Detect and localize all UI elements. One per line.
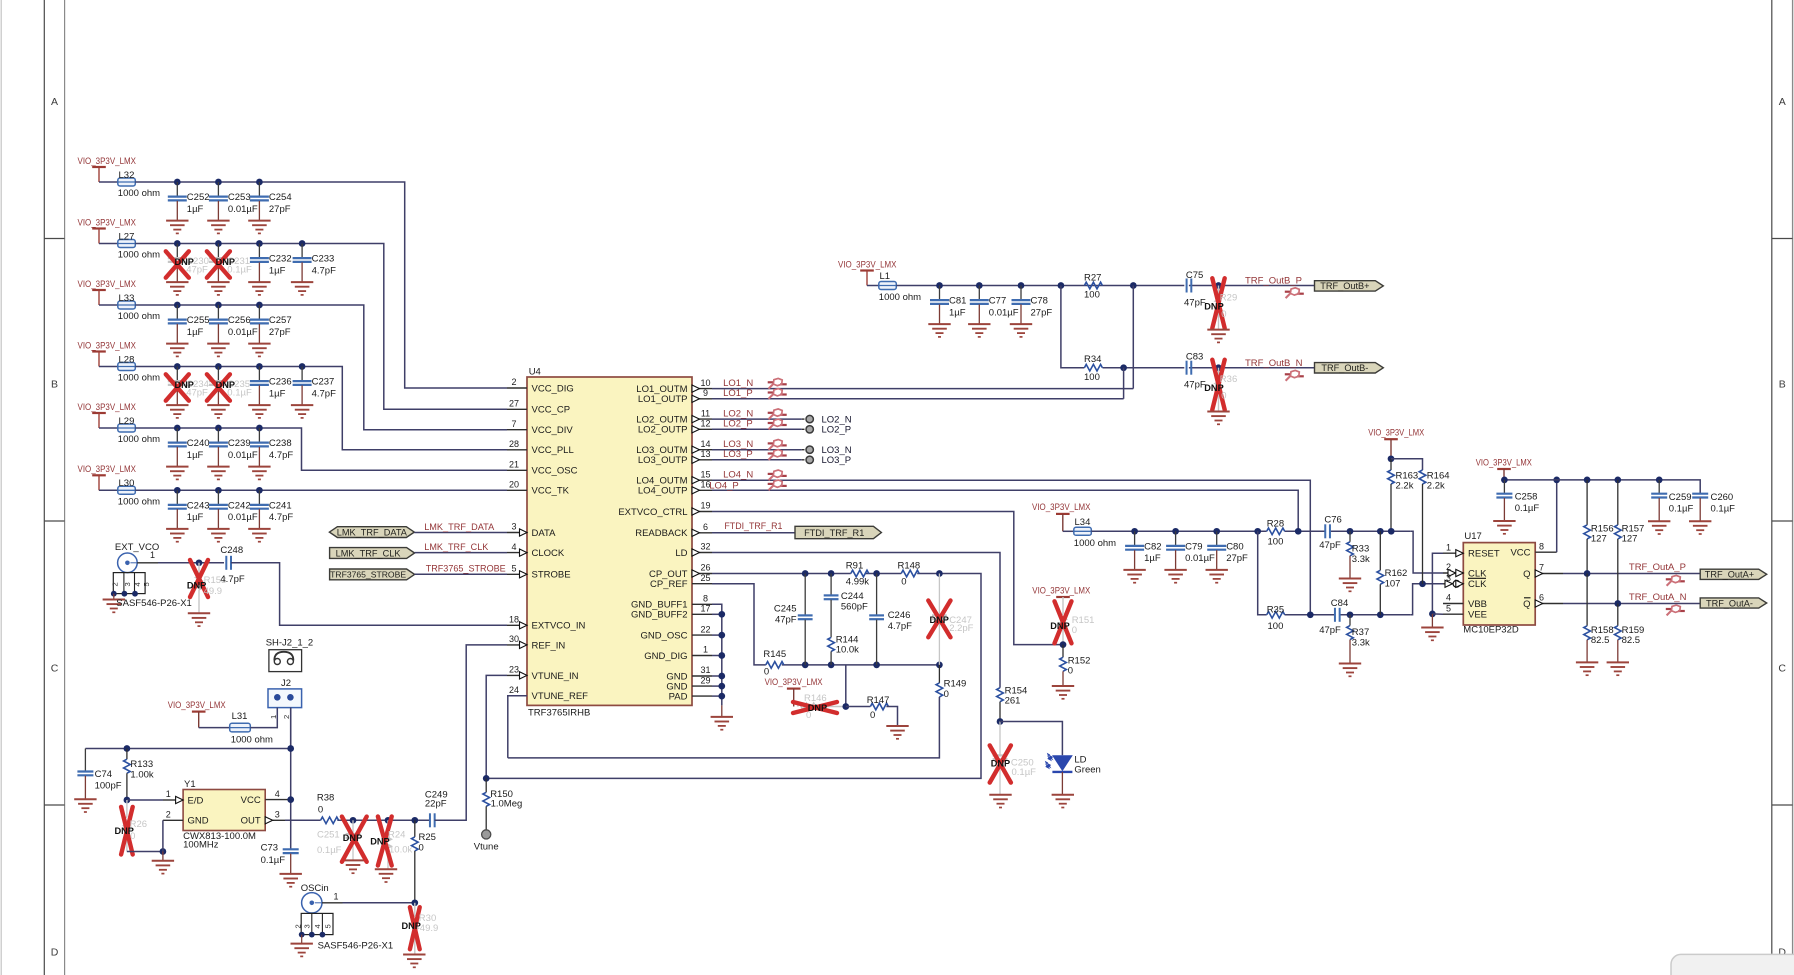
resistor R146 DNP xyxy=(793,693,846,721)
wire OUT row xyxy=(285,819,466,821)
svg-text:10: 10 xyxy=(700,378,710,388)
svg-text:1.0Meg: 1.0Meg xyxy=(491,799,523,810)
wire to REF_IN xyxy=(435,645,507,820)
jumper SH-J2_1_2 xyxy=(266,638,314,672)
capacitor C81 xyxy=(928,282,966,337)
diff pair icon LO3_P xyxy=(768,450,787,460)
resistor R148 xyxy=(898,560,921,587)
svg-text:L31: L31 xyxy=(232,711,248,722)
svg-text:R24: R24 xyxy=(388,830,405,841)
capacitor C82 xyxy=(1123,528,1161,583)
svg-text:2: 2 xyxy=(294,924,303,928)
wire EXTVCO_CTRL xyxy=(712,512,1063,645)
power VIO_3P3V_LMX OutB xyxy=(838,259,897,285)
svg-text:L1: L1 xyxy=(880,271,891,282)
svg-text:DNP: DNP xyxy=(930,615,949,625)
svg-text:C237: C237 xyxy=(312,377,335,388)
svg-text:4: 4 xyxy=(275,789,280,799)
svg-text:TRF_OutA+: TRF_OutA+ xyxy=(1705,570,1754,580)
svg-text:DNP: DNP xyxy=(343,833,362,843)
power VIO_3P3V_LMX for L28 xyxy=(78,340,137,366)
svg-text:0: 0 xyxy=(901,577,906,588)
U17 pin 1 RESET xyxy=(1443,542,1500,559)
IC Y1 CWX813 body xyxy=(183,779,265,851)
capacitor C251 DNP xyxy=(317,817,367,874)
diff pair icon LO4_P xyxy=(768,480,787,490)
connector OSCin xyxy=(291,883,394,957)
power VIO_3P3V_LMX U17 xyxy=(1476,457,1533,480)
svg-text:R27: R27 xyxy=(1084,272,1101,283)
svg-text:LO1_P: LO1_P xyxy=(723,388,753,399)
svg-text:47pF: 47pF xyxy=(775,615,797,626)
svg-text:1µF: 1µF xyxy=(269,388,286,399)
svg-text:VIO_3P3V_LMX: VIO_3P3V_LMX xyxy=(78,279,137,290)
power VIO_3P3V_LMX R146 xyxy=(765,677,824,707)
svg-text:107: 107 xyxy=(1385,579,1401,590)
svg-text:C245: C245 xyxy=(774,604,797,615)
wire L32 rail xyxy=(135,182,507,388)
wire R147 tap xyxy=(842,665,849,710)
svg-text:4.7pF: 4.7pF xyxy=(269,450,293,461)
inductor L31 xyxy=(199,711,273,746)
svg-text:C256: C256 xyxy=(228,315,251,326)
svg-text:C251: C251 xyxy=(317,830,340,841)
power VIO_3P3V_LMX L31 xyxy=(168,700,227,728)
svg-text:1µF: 1µF xyxy=(187,450,204,461)
U4 pin 30 REF_IN xyxy=(507,634,565,651)
U4 pin 4 CLOCK xyxy=(507,542,565,559)
wire R26 to gnd dot xyxy=(127,848,166,855)
svg-text:4: 4 xyxy=(511,542,516,552)
svg-text:47pF: 47pF xyxy=(1319,625,1341,636)
resistor R147 xyxy=(846,695,909,739)
svg-text:DNP: DNP xyxy=(370,837,389,847)
svg-text:C84: C84 xyxy=(1331,598,1348,609)
svg-text:L30: L30 xyxy=(119,478,135,489)
svg-text:100: 100 xyxy=(1268,621,1284,632)
svg-text:4.7pF: 4.7pF xyxy=(888,621,912,632)
svg-text:Green: Green xyxy=(1074,765,1100,776)
svg-text:0.01µF: 0.01µF xyxy=(1185,553,1215,564)
svg-text:EXTVCO_CTRL: EXTVCO_CTRL xyxy=(618,507,687,518)
svg-text:C77: C77 xyxy=(989,296,1006,307)
net label LO4_P xyxy=(709,481,739,492)
svg-text:LO3_P: LO3_P xyxy=(723,449,753,460)
diff pair icon OutB_N xyxy=(1285,370,1304,380)
capacitor C249 xyxy=(425,790,448,828)
net label LO1_P xyxy=(723,388,753,399)
U17 pin 3 CLKbar xyxy=(1443,573,1487,590)
tag TRF_OutA+ xyxy=(1700,569,1767,579)
svg-text:L32: L32 xyxy=(119,170,135,181)
svg-text:0.01µF: 0.01µF xyxy=(989,307,1019,318)
net label TRF_OutA_P xyxy=(1629,562,1686,573)
svg-text:VIO_3P3V_LMX: VIO_3P3V_LMX xyxy=(1032,585,1091,596)
svg-text:C253: C253 xyxy=(228,192,251,203)
svg-text:Y1: Y1 xyxy=(184,779,196,790)
svg-text:DATA: DATA xyxy=(532,528,557,539)
net label LO1_N xyxy=(723,378,753,389)
resistor R164 xyxy=(1391,459,1450,584)
resistor R33 xyxy=(1339,528,1370,591)
wire LO2_P xyxy=(712,428,805,430)
svg-text:TRF_OutB_P: TRF_OutB_P xyxy=(1245,275,1302,286)
inductor L29 xyxy=(99,416,160,445)
svg-text:LD: LD xyxy=(675,548,687,559)
svg-text:C240: C240 xyxy=(187,438,210,449)
svg-text:21: 21 xyxy=(509,460,519,470)
svg-text:27pF: 27pF xyxy=(1031,307,1053,318)
net label TRF3765_STROBE xyxy=(426,564,506,575)
U4 pin 20 VCC_TK xyxy=(507,480,570,497)
capacitor C79 xyxy=(1164,528,1215,583)
U4 pin 2 VCC_DIG xyxy=(507,377,574,394)
svg-text:DNP: DNP xyxy=(808,703,827,713)
diff pair icon LO2_N xyxy=(768,409,787,419)
wire LO1_N xyxy=(712,388,1133,390)
resistor R150 xyxy=(483,778,522,829)
inductor L1 xyxy=(867,271,921,303)
svg-text:VCC_OSC: VCC_OSC xyxy=(532,466,578,477)
wire L29 rail xyxy=(135,428,507,470)
svg-text:C241: C241 xyxy=(269,501,292,512)
svg-text:C259: C259 xyxy=(1669,492,1692,503)
IC U4 TRF3765IRHB body xyxy=(527,367,692,719)
svg-text:VIO_3P3V_LMX: VIO_3P3V_LMX xyxy=(1476,457,1533,468)
svg-text:1µF: 1µF xyxy=(187,204,204,215)
svg-text:VIO_3P3V_LMX: VIO_3P3V_LMX xyxy=(78,402,137,413)
svg-text:0: 0 xyxy=(1068,666,1073,677)
svg-text:VCC_TK: VCC_TK xyxy=(532,486,570,497)
svg-text:B: B xyxy=(1779,379,1786,391)
svg-text:27pF: 27pF xyxy=(269,327,291,338)
svg-text:0.1µF: 0.1µF xyxy=(1711,504,1736,515)
junction LO4_N joins xyxy=(1307,611,1314,618)
svg-text:100: 100 xyxy=(1084,372,1100,383)
Y1 pin 1 E/D xyxy=(166,789,204,806)
svg-text:24: 24 xyxy=(509,685,519,695)
svg-text:C233: C233 xyxy=(312,254,335,265)
svg-text:0.01µF: 0.01µF xyxy=(228,512,258,523)
diff pair icon LO2_P xyxy=(768,419,787,429)
svg-text:VIO_3P3V_LMX: VIO_3P3V_LMX xyxy=(838,259,897,270)
capacitor C247 DNP xyxy=(928,570,973,668)
svg-text:SH-J2_1_2: SH-J2_1_2 xyxy=(266,638,314,649)
power VIO_3P3V_LMX for L29 xyxy=(78,402,137,428)
resistor R27 xyxy=(1084,272,1102,300)
capacitor C244 xyxy=(824,570,868,668)
net label TRF_OutB_P xyxy=(1245,275,1302,286)
Y1 pin 2 GND xyxy=(163,810,209,827)
svg-text:49.9: 49.9 xyxy=(204,586,223,597)
svg-text:LO3_OUTP: LO3_OUTP xyxy=(638,455,688,466)
svg-text:C243: C243 xyxy=(187,501,210,512)
U4 pin 1 GND_DIG xyxy=(644,645,712,662)
resistor R133 xyxy=(124,745,154,803)
svg-text:LMK_TRF_CLK: LMK_TRF_CLK xyxy=(424,542,489,553)
wire to EXTVCO_IN xyxy=(231,563,507,626)
svg-text:3: 3 xyxy=(511,522,516,532)
capacitor C230 DNP xyxy=(166,240,209,295)
svg-text:23: 23 xyxy=(509,665,519,675)
U4 pin 11 LO2_OUTM xyxy=(636,408,712,425)
svg-text:VIO_3P3V_LMX: VIO_3P3V_LMX xyxy=(168,700,227,711)
diff pair icon LO1_N xyxy=(768,378,787,388)
U4 pin 31 GND xyxy=(666,665,712,682)
svg-text:TRF_OutA-: TRF_OutA- xyxy=(1706,598,1753,608)
svg-text:TRF_OutB+: TRF_OutB+ xyxy=(1320,281,1369,291)
svg-text:TRF_OutA_N: TRF_OutA_N xyxy=(1629,592,1687,603)
tag TRF_OutB+ xyxy=(1315,281,1384,292)
svg-text:1000 ohm: 1000 ohm xyxy=(118,250,160,261)
header J2 xyxy=(268,678,302,719)
U4 pin 19 EXTVCO_CTRL xyxy=(618,501,712,518)
viewer UI corner box xyxy=(1671,954,1794,975)
diff pair icon LO4_N xyxy=(768,470,787,480)
capacitor C240 xyxy=(166,425,209,480)
wire OutB_N row xyxy=(1058,282,1315,368)
diff pair icon OutB_P xyxy=(1285,288,1304,298)
terminal LO3_P xyxy=(806,455,851,466)
svg-text:VIO_3P3V_LMX: VIO_3P3V_LMX xyxy=(78,464,137,475)
svg-text:READBACK: READBACK xyxy=(635,528,688,539)
U4 pin 24 VTUNE_REF xyxy=(507,685,588,702)
svg-text:C83: C83 xyxy=(1186,352,1203,363)
capacitor C252 xyxy=(166,179,209,234)
svg-text:R133: R133 xyxy=(130,759,153,770)
svg-text:127: 127 xyxy=(1622,534,1638,545)
capacitor C235 DNP xyxy=(207,363,252,418)
resistor R152 xyxy=(1052,641,1091,699)
wire DATA xyxy=(414,532,507,534)
U4 pin 16 LO4_OUTP xyxy=(638,480,712,497)
svg-text:GND_OSC: GND_OSC xyxy=(641,631,688,642)
svg-text:LMK_TRF_DATA: LMK_TRF_DATA xyxy=(337,527,408,537)
wire LO4_P xyxy=(712,490,1298,531)
svg-text:L33: L33 xyxy=(119,293,135,304)
capacitor C260 xyxy=(1689,492,1735,534)
svg-text:R145: R145 xyxy=(763,649,786,660)
svg-text:L28: L28 xyxy=(119,354,135,365)
svg-text:C236: C236 xyxy=(269,377,292,388)
svg-text:4: 4 xyxy=(133,582,142,586)
svg-text:J2: J2 xyxy=(281,678,291,689)
svg-text:R91: R91 xyxy=(846,560,863,571)
svg-text:5: 5 xyxy=(511,564,516,574)
wire CLKb feed xyxy=(1410,580,1443,614)
svg-text:C260: C260 xyxy=(1711,492,1734,503)
svg-text:11: 11 xyxy=(701,408,710,418)
capacitor C75 xyxy=(1184,270,1206,308)
svg-text:C82: C82 xyxy=(1144,542,1161,553)
wire CP_OUT row xyxy=(486,574,981,779)
svg-text:17: 17 xyxy=(700,604,710,614)
svg-text:R35: R35 xyxy=(1267,605,1284,616)
svg-text:Q: Q xyxy=(1523,569,1530,580)
svg-text:0: 0 xyxy=(318,805,323,816)
svg-text:15: 15 xyxy=(700,469,710,479)
svg-text:VBB: VBB xyxy=(1468,599,1487,610)
svg-text:D: D xyxy=(51,946,59,958)
inductor L30 xyxy=(99,478,160,507)
U4 pin 10 LO1_OUTM xyxy=(636,378,712,395)
svg-text:2.2pF: 2.2pF xyxy=(949,623,973,634)
svg-text:20: 20 xyxy=(509,480,519,490)
svg-text:LO4_OUTP: LO4_OUTP xyxy=(638,486,688,497)
svg-text:TRF_OutB-: TRF_OutB- xyxy=(1321,363,1368,373)
svg-text:FTDI_TRF_R1: FTDI_TRF_R1 xyxy=(724,521,782,532)
svg-text:OUT: OUT xyxy=(241,816,261,827)
power VIO_3P3V_LMX for L33 xyxy=(78,279,137,305)
svg-text:82.5: 82.5 xyxy=(1622,635,1641,646)
junction LO4_P joins xyxy=(1295,528,1302,535)
svg-text:1000 ohm: 1000 ohm xyxy=(118,497,160,508)
svg-text:1µF: 1µF xyxy=(1144,553,1161,564)
svg-text:0.1µF: 0.1µF xyxy=(317,845,342,856)
net label LO3_P xyxy=(723,449,753,460)
capacitor C234 DNP xyxy=(166,363,209,418)
Y1 pin 3 OUT xyxy=(241,810,285,827)
wire CLOCK xyxy=(415,552,507,554)
resistor R156 xyxy=(1584,477,1614,577)
svg-text:R28: R28 xyxy=(1267,519,1284,530)
svg-text:DNP: DNP xyxy=(1204,302,1223,312)
U4 pin 18 EXTVCO_IN xyxy=(507,615,585,632)
svg-text:VCC_DIV: VCC_DIV xyxy=(532,425,574,436)
U4 pin 15 LO4_OUTM xyxy=(636,469,712,486)
capacitor C237 xyxy=(291,363,336,418)
svg-text:L29: L29 xyxy=(119,416,135,427)
svg-text:C80: C80 xyxy=(1226,542,1243,553)
terminal LO2_P xyxy=(806,425,851,436)
svg-text:22pF: 22pF xyxy=(425,799,447,810)
svg-text:L34: L34 xyxy=(1075,517,1091,528)
svg-text:5: 5 xyxy=(1446,603,1451,613)
tag FTDI_TRF_R1 xyxy=(795,526,881,538)
svg-text:VEE: VEE xyxy=(1468,610,1487,621)
svg-text:3: 3 xyxy=(123,582,132,586)
capacitor C83 xyxy=(1184,352,1206,391)
inductor L28 xyxy=(99,354,160,383)
svg-text:2.2k: 2.2k xyxy=(1396,480,1414,491)
svg-text:LO1_OUTP: LO1_OUTP xyxy=(638,394,688,405)
svg-text:2.2k: 2.2k xyxy=(1427,480,1445,491)
svg-text:1: 1 xyxy=(166,789,171,799)
wire LO3_N xyxy=(712,449,805,451)
svg-text:27pF: 27pF xyxy=(269,204,291,215)
svg-text:C244: C244 xyxy=(841,591,864,602)
U17 pin 8 VCC xyxy=(1510,541,1556,558)
svg-text:DNP: DNP xyxy=(991,759,1010,769)
capacitor C246 xyxy=(869,570,912,668)
svg-text:4.7pF: 4.7pF xyxy=(312,388,336,399)
resistor R28 xyxy=(1267,519,1285,548)
wire Qbar row xyxy=(1563,603,1700,605)
svg-text:1: 1 xyxy=(703,645,708,655)
svg-text:1µF: 1µF xyxy=(949,307,966,318)
svg-text:A: A xyxy=(51,96,58,108)
resistor R151 DNP xyxy=(1050,597,1094,645)
svg-text:VCC_DIG: VCC_DIG xyxy=(532,383,574,394)
svg-text:DNP: DNP xyxy=(402,921,421,931)
svg-text:1: 1 xyxy=(334,891,339,901)
svg-text:VIO_3P3V_LMX: VIO_3P3V_LMX xyxy=(765,677,824,688)
capacitor C80 xyxy=(1206,528,1249,583)
wire LO3_P xyxy=(712,459,805,461)
svg-text:47pF: 47pF xyxy=(1319,540,1341,551)
svg-text:31: 31 xyxy=(700,665,710,675)
svg-text:1µF: 1µF xyxy=(187,327,204,338)
svg-text:9: 9 xyxy=(703,388,708,398)
U4 pin 32 LD xyxy=(675,542,712,559)
wire L27 rail xyxy=(135,244,507,410)
capacitor C256 xyxy=(207,302,258,357)
svg-text:LO4_P: LO4_P xyxy=(709,481,739,492)
svg-text:C78: C78 xyxy=(1031,296,1048,307)
svg-text:14: 14 xyxy=(700,439,710,449)
svg-text:LO2_P: LO2_P xyxy=(822,425,852,436)
wire GND to ground xyxy=(162,820,164,861)
svg-text:LO2_P: LO2_P xyxy=(723,419,753,430)
wire VTUNE_REF xyxy=(508,696,527,758)
svg-text:OSCin: OSCin xyxy=(301,883,329,894)
wire L30 rail xyxy=(135,489,507,491)
svg-text:TRF_OutA_P: TRF_OutA_P xyxy=(1629,562,1686,573)
svg-text:1000 ohm: 1000 ohm xyxy=(231,735,273,746)
svg-text:3: 3 xyxy=(303,924,312,928)
capacitor C243 xyxy=(166,487,209,542)
U4 pin 27 VCC_CP xyxy=(507,399,570,416)
U4 pin 22 GND_OSC xyxy=(641,624,712,641)
inductor L33 xyxy=(99,293,160,322)
svg-text:FTDI_TRF_R1: FTDI_TRF_R1 xyxy=(804,528,864,538)
svg-text:18: 18 xyxy=(509,615,519,625)
capacitor C241 xyxy=(248,487,293,542)
svg-text:1000 ohm: 1000 ohm xyxy=(118,373,160,384)
capacitor C232 xyxy=(248,240,291,295)
resistor R154 xyxy=(997,685,1028,725)
svg-text:49.9: 49.9 xyxy=(420,923,439,934)
svg-text:19: 19 xyxy=(700,501,710,511)
inductor L27 xyxy=(99,231,160,260)
wire VCC bus xyxy=(1504,480,1700,493)
resistor R36 DNP xyxy=(1204,360,1237,425)
tag TRF3765_STROBE xyxy=(330,569,415,580)
U17 pin 5 VEE xyxy=(1443,603,1487,620)
wire LO4_N xyxy=(712,480,1310,615)
svg-text:7: 7 xyxy=(511,419,516,429)
svg-text:12: 12 xyxy=(700,419,710,429)
diff pair icon OutA_N xyxy=(1666,605,1685,615)
terminal LO2_N xyxy=(806,415,852,426)
svg-text:1000 ohm: 1000 ohm xyxy=(879,292,921,303)
svg-text:560pF: 560pF xyxy=(841,602,868,613)
wire main row to J2/Y1 xyxy=(85,748,290,750)
svg-text:LMK_TRF_DATA: LMK_TRF_DATA xyxy=(424,522,495,533)
capacitor C74 xyxy=(74,749,122,813)
capacitor C253 xyxy=(207,179,258,234)
svg-text:GND_DIG: GND_DIG xyxy=(644,651,687,662)
U4 pin 7 VCC_DIV xyxy=(507,419,573,436)
svg-text:127: 127 xyxy=(1591,534,1607,545)
U4 pin 8 GND_BUFF1 xyxy=(631,594,712,611)
svg-text:C252: C252 xyxy=(187,192,210,203)
resistor R149 xyxy=(508,665,967,758)
svg-text:CLOCK: CLOCK xyxy=(532,548,565,559)
svg-text:MC10EP32D: MC10EP32D xyxy=(1463,625,1519,636)
U4 pin 23 VTUNE_IN xyxy=(507,665,579,682)
svg-text:100: 100 xyxy=(1084,289,1100,300)
